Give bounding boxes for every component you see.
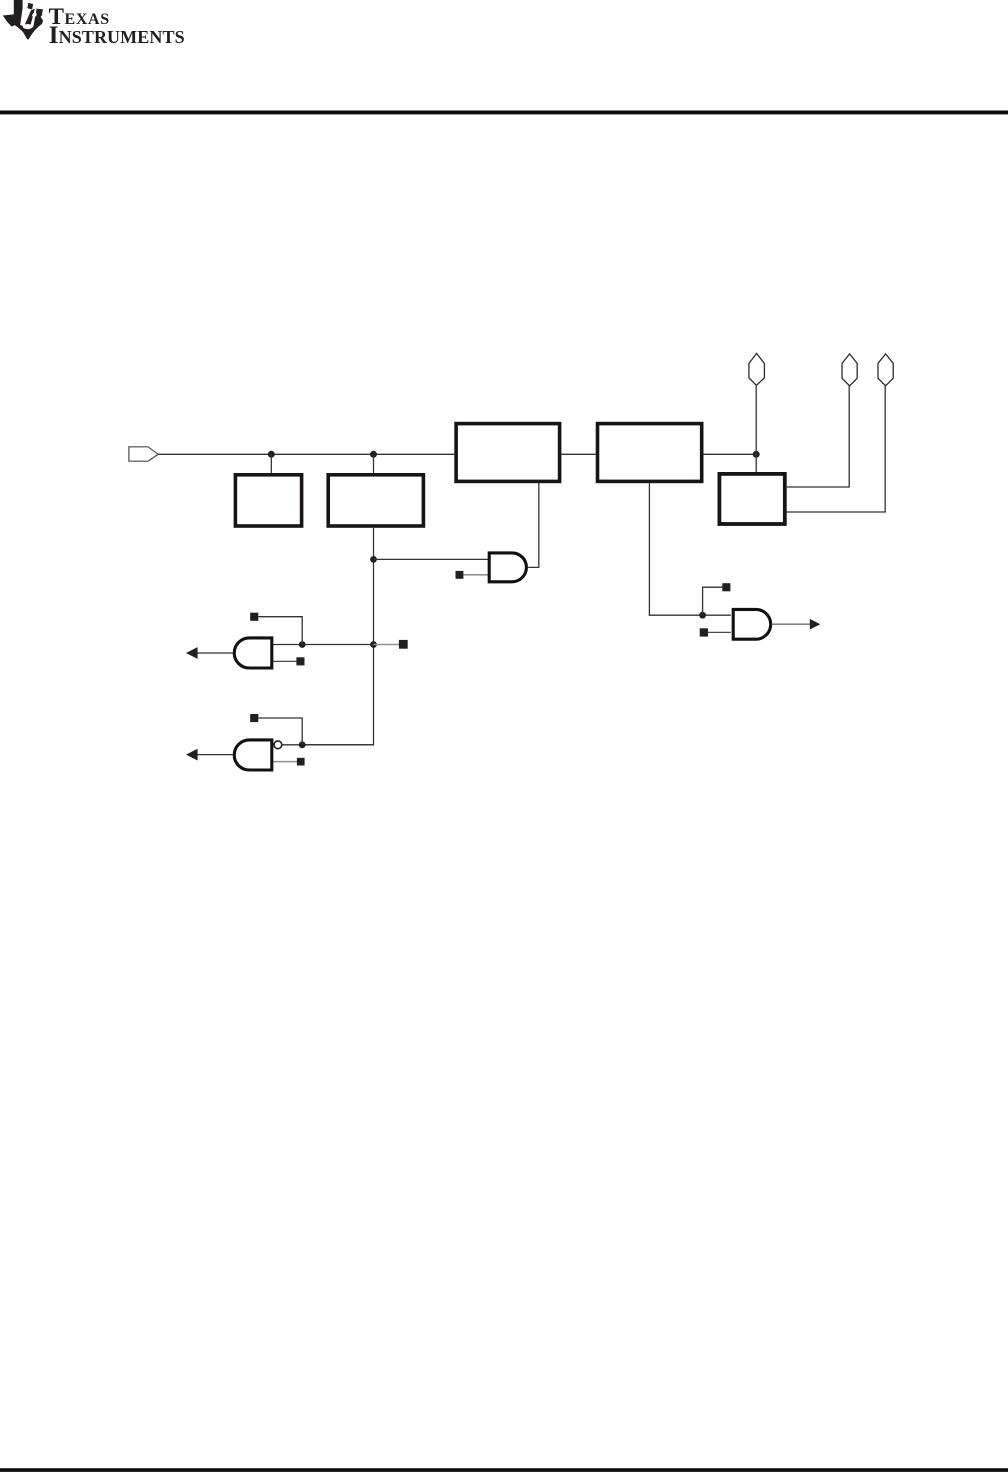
- stub square S5: [296, 657, 304, 665]
- wire: U3 top input run with bubble: [282, 744, 374, 746]
- wire: box E to pin 3: [787, 386, 886, 512]
- wire: box D right to junction: [704, 453, 757, 455]
- wire: junction down to box E: [755, 454, 757, 473]
- arrowhead U4 output: [810, 619, 821, 630]
- node: junction dot on U2 top input: [299, 641, 306, 648]
- box A: [235, 475, 301, 526]
- stub square S6: [250, 714, 258, 722]
- and-gate U4: [733, 609, 770, 639]
- stub square S8: [722, 583, 730, 591]
- arrowhead U3 output: [186, 749, 198, 761]
- wire: square S1 to U1 bottom input: [463, 574, 488, 576]
- node: junction dot below box B: [370, 556, 377, 563]
- bottom horizontal rule: [0, 1468, 1008, 1472]
- box E: [719, 474, 784, 524]
- box C: [456, 424, 559, 482]
- box B: [328, 475, 423, 526]
- wire: box C to box D: [561, 453, 595, 455]
- inversion bubble on U3 top input: [274, 741, 282, 749]
- wire: stub right of junction to square S4: [374, 644, 400, 646]
- pin symbol 2: [842, 354, 857, 386]
- wire: dot down to box A: [270, 454, 272, 474]
- node: junction dot at U2 top-input net: [370, 641, 377, 648]
- wire: U2 bottom input to square S5: [273, 660, 298, 662]
- wire: dot up and left to square S3: [258, 617, 302, 645]
- wire: box B bottom long vertical net: [303, 528, 374, 745]
- wire: dot up and right to square S8: [703, 587, 723, 615]
- stub square S3: [250, 613, 258, 621]
- wire: box E to pin 2: [787, 386, 850, 487]
- wire: U3 bottom input to square S7: [273, 761, 298, 763]
- pin symbol 3: [878, 354, 893, 386]
- wire: U2 output to left arrow: [196, 652, 233, 654]
- TI logo Texas-state emblem: [3, 0, 43, 39]
- top horizontal rule: [0, 111, 1008, 115]
- wire: U1 output up into box C: [528, 483, 539, 568]
- node: junction dot right of box D: [753, 451, 760, 458]
- wire: square S9 to U4 bottom input: [708, 631, 731, 633]
- and-gate U2 (mirrored): [234, 638, 272, 668]
- stub square S7: [297, 758, 305, 766]
- wire: box D bottom to U4 top input: [649, 483, 730, 615]
- input stub square S1 for U1: [456, 571, 464, 579]
- wire: junction up to pin 1: [755, 385, 757, 454]
- wire: main horizontal net from flag to box C: [158, 453, 454, 455]
- node: junction dot on U3 top input: [299, 741, 306, 748]
- svg-text:Instruments: Instruments: [49, 20, 185, 49]
- and-gate U1: [489, 553, 526, 582]
- wire: U4 output to right arrow: [772, 623, 811, 625]
- node: junction dot on U4 top input: [699, 612, 706, 619]
- node: junction dot above box A: [268, 451, 275, 458]
- wire: U3 output to left arrow: [196, 754, 233, 756]
- wire: U2 top input run: [273, 644, 374, 646]
- wire: dot up and left to square S6: [258, 718, 302, 745]
- stub square S9: [700, 628, 708, 636]
- nand-gate U3 (mirrored): [234, 740, 272, 770]
- stub square S4: [399, 640, 408, 649]
- wire: dot down to box B: [373, 454, 375, 474]
- box D: [598, 424, 702, 482]
- input terminal flag: [129, 447, 158, 461]
- wire: dot to and-gate U1 top input: [374, 558, 489, 560]
- node: junction dot above box B: [370, 451, 377, 458]
- arrowhead U2 output: [186, 647, 198, 659]
- pin symbol 1: [749, 353, 765, 385]
